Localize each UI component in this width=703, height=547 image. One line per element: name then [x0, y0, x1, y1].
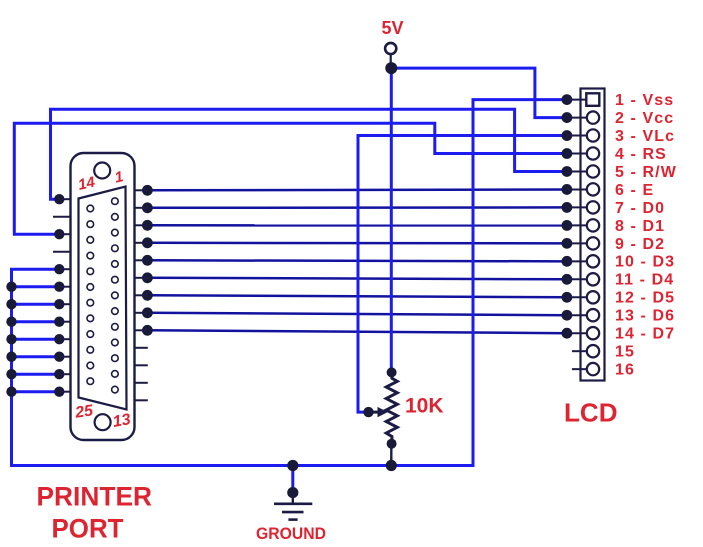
wire GND branch from printer pin 19 to left bus: [6, 282, 64, 292]
junction dot LCD pin 6: [562, 184, 573, 195]
potentiometer wiper arrow: [369, 411, 379, 414]
junction dot LCD pin 9: [562, 238, 573, 249]
junction dot printer pin 14: [54, 194, 64, 204]
svg-text:16: 16: [615, 362, 635, 379]
junction dot on left bus at pin 22 row: [6, 334, 16, 344]
svg-text:14 - D7: 14 - D7: [615, 326, 675, 343]
junction dot printer pin 8: [142, 307, 153, 318]
junction dot printer pin 7: [142, 290, 153, 301]
svg-text:3 - VLc: 3 - VLc: [615, 128, 675, 145]
junction dot LCD pin 11: [562, 274, 573, 285]
svg-text:LCD: LCD: [564, 398, 618, 428]
wire 5V supply down to potentiometer top terminal: [390, 68, 393, 372]
svg-text:12 - D5: 12 - D5: [615, 290, 675, 307]
junction dot LCD pin 1 (Vss): [562, 94, 573, 105]
junction dot printer pin 16: [54, 229, 64, 239]
junction dot printer pin 9: [142, 325, 153, 336]
junction dot on left bus at pin 23 row: [6, 352, 16, 362]
wire D4 net: printer pin 6 to LCD pin 11: [142, 272, 572, 284]
junction dot printer pin 22: [54, 334, 64, 344]
junction dot LCD pin 3 (VLc): [562, 130, 573, 141]
svg-text:8 - D1: 8 - D1: [615, 218, 665, 235]
wire GND branch from printer pin 25 to left bus: [6, 387, 64, 397]
wire VLc net: potentiometer wiper up and across to LCD pin 3: [358, 130, 572, 412]
DB25 pin holes right column (pins 1-13): [112, 198, 119, 393]
potentiometer wiper terminal dot: [363, 407, 373, 417]
wire D5 net: printer pin 7 to LCD pin 12: [142, 290, 572, 303]
DB25 mounting hole top: [94, 163, 110, 179]
junction dot LCD pin 4 (RS): [562, 148, 573, 159]
junction dot LCD pin 5 (R/W): [562, 166, 573, 177]
DB25 left side pin stubs (pins 14-25): [53, 199, 71, 392]
junction dot LCD pin 14: [562, 328, 573, 339]
junction dot printer pin 24: [54, 369, 64, 379]
svg-text:4 - RS: 4 - RS: [615, 146, 667, 163]
potentiometer R1 10K body (zigzag): [363, 367, 397, 448]
wire D7 net: printer pin 9 to LCD pin 14: [142, 325, 572, 339]
DB25 pin holes left column (pins 14-25): [87, 205, 94, 384]
junction dot LCD pin 10: [562, 256, 573, 267]
DB25 trapezoid face: [79, 187, 127, 410]
junction dot printer pin 4: [142, 237, 153, 248]
wire E net: printer pin 1 to LCD pin 6: [142, 184, 572, 196]
svg-text:1 - Vss: 1 - Vss: [615, 92, 674, 109]
wire GND net: printer pin 18 left then down the left bus: [12, 100, 567, 466]
connector J1 DB25 printer port body: [71, 153, 135, 440]
svg-text:13: 13: [112, 411, 133, 431]
svg-text:11 - D4: 11 - D4: [615, 272, 674, 289]
svg-text:9 - D2: 9 - D2: [615, 236, 665, 253]
svg-text:25: 25: [73, 402, 95, 422]
junction dot printer pin 5: [142, 255, 153, 266]
junction dot printer pin 25: [54, 387, 64, 397]
wire R/W net: printer pin 14 up and across to LCD pin 5: [51, 109, 573, 204]
ground symbol: [274, 487, 312, 520]
junction dot below 5V terminal: [385, 62, 397, 74]
junction dot on left bus at pin 25 row: [6, 387, 16, 397]
junction dot printer pin 20: [54, 299, 64, 309]
junction dot ground tap on bus: [287, 460, 298, 471]
wire GND branch from printer pin 23 to left bus: [6, 352, 64, 362]
junction dot above ground symbol: [287, 487, 298, 498]
potentiometer top terminal dot: [387, 367, 397, 377]
junction dot printer pin 1: [142, 185, 153, 196]
wire ground bus tap down to ground symbol: [291, 466, 294, 493]
svg-text:2 - Vcc: 2 - Vcc: [615, 110, 674, 127]
junction dot printer pin 19: [54, 282, 64, 292]
junction dot printer pin 6: [142, 272, 153, 283]
junction dot LCD pin 8: [562, 220, 573, 231]
svg-text:10K: 10K: [405, 395, 444, 418]
svg-text:13 - D6: 13 - D6: [615, 308, 675, 325]
junction dot on left bus at pin 20 row: [6, 299, 16, 309]
svg-text:7 - D0: 7 - D0: [615, 200, 665, 217]
junction dot printer pin 23: [54, 352, 64, 362]
svg-text:5 - R/W: 5 - R/W: [615, 164, 677, 181]
wire RS net: printer pin 16 up and across to LCD pin 4: [14, 123, 572, 239]
wire D2 net: printer pin 4 to LCD pin 9: [142, 237, 572, 248]
junction dot LCD pin 12: [562, 292, 573, 303]
junction dot printer pin 3: [142, 220, 153, 231]
wire D6 net: printer pin 8 to LCD pin 13: [142, 307, 572, 320]
svg-text:15: 15: [615, 344, 635, 361]
power terminal 5V: [385, 43, 397, 74]
wire D0 net: printer pin 2 to LCD pin 7: [142, 202, 572, 213]
wire potentiometer bottom terminal down to ground bus: [390, 444, 392, 466]
svg-text:GROUND: GROUND: [256, 524, 326, 543]
wire D3 net: printer pin 5 to LCD pin 10: [142, 255, 572, 267]
wire GND branch from printer pin 22 to left bus: [6, 334, 64, 344]
junction dot printer pin 2: [142, 202, 153, 213]
LCD pin stubs: [567, 100, 587, 370]
LCD pin 1 square pad: [586, 93, 599, 106]
svg-text:PORT: PORT: [52, 514, 124, 544]
junction dot printer pin 18: [54, 264, 64, 274]
svg-text:6 - E: 6 - E: [615, 182, 654, 199]
junction dot LCD pin 7: [562, 202, 573, 213]
connector J2 LCD header body: [581, 89, 605, 381]
DB25 right side pin stubs (pins 1-13): [135, 190, 148, 400]
svg-text:5V: 5V: [382, 18, 404, 38]
junction dot on left bus at pin 21 row: [6, 317, 16, 327]
DB25 mounting hole bottom: [95, 414, 111, 430]
svg-text:PRINTER: PRINTER: [37, 482, 153, 512]
wire D1 net: printer pin 3 to LCD pin 8: [142, 220, 572, 231]
svg-text:10 - D3: 10 - D3: [615, 254, 675, 271]
wire Vcc net: 5V supply across and down to LCD pin 2: [391, 68, 572, 123]
junction dot on left bus at pin 19 row: [6, 282, 16, 292]
wire GND branch from printer pin 24 to left bus: [6, 369, 64, 379]
wire GND branch from printer pin 20 to left bus: [6, 299, 64, 309]
junction dot potentiometer leg on ground bus: [386, 460, 397, 471]
potentiometer bottom terminal dot: [387, 439, 397, 449]
junction dot LCD pin 2 (Vcc): [562, 112, 573, 123]
LCD pin pads 2-16: [587, 111, 599, 375]
junction dot printer pin 21: [54, 317, 64, 327]
junction dot on left bus at pin 24 row: [6, 369, 16, 379]
junction dot LCD pin 13: [562, 310, 573, 321]
wire GND branch from printer pin 21 to left bus: [6, 317, 64, 327]
